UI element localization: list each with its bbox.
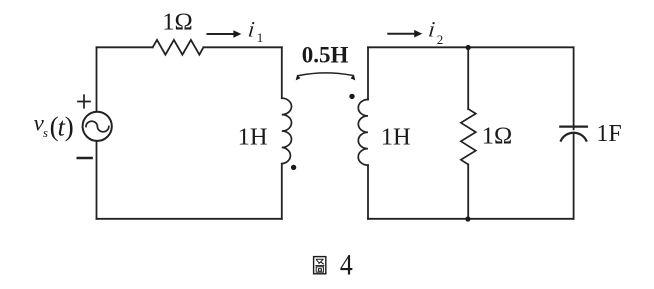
svg-text:1Ω: 1Ω bbox=[482, 123, 512, 150]
svg-text:1H: 1H bbox=[238, 124, 268, 151]
svg-text:s: s bbox=[43, 125, 48, 140]
svg-text:1F: 1F bbox=[596, 121, 621, 147]
svg-text:4: 4 bbox=[340, 249, 353, 282]
svg-text:): ) bbox=[65, 111, 74, 141]
svg-text:2: 2 bbox=[437, 32, 444, 47]
svg-text:1: 1 bbox=[257, 30, 264, 45]
svg-text:i: i bbox=[427, 17, 436, 42]
svg-text:1Ω: 1Ω bbox=[162, 9, 192, 36]
svg-text:i: i bbox=[247, 17, 256, 42]
svg-text:0.5H: 0.5H bbox=[302, 43, 349, 68]
svg-text:1H: 1H bbox=[381, 123, 411, 150]
